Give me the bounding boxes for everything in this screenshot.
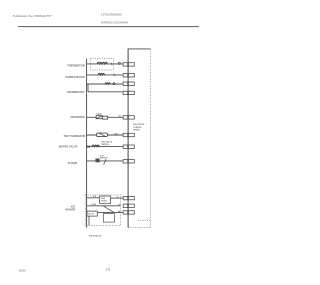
defrost heater element boxes row 5 <box>96 116 108 119</box>
wire row 5 <box>87 116 123 118</box>
svg-text:VAPORIZER: VAPORIZER <box>70 116 85 119</box>
electronic control board label <box>133 124 145 131</box>
note above wire A <box>93 195 97 198</box>
wire row 7 <box>87 146 123 148</box>
footer date <box>19 268 27 272</box>
connector pair JB <box>123 204 134 207</box>
thermal fuse squiggle row 3 <box>105 83 110 84</box>
electronic control board left edge bus <box>127 49 129 228</box>
wire A to connector <box>111 197 123 199</box>
switch throw diagonal <box>104 206 114 212</box>
wire row 6 <box>87 134 123 136</box>
svg-text:THERMISTOR: THERMISTOR <box>67 63 85 67</box>
note above row 7 <box>101 141 113 147</box>
wire row 4 <box>88 91 123 93</box>
svg-text:WIRING DIAGRAM: WIRING DIAGRAM <box>101 21 128 25</box>
svg-text:ICE MODULE: ICE MODULE <box>89 236 102 238</box>
svg-text:MAKER: MAKER <box>66 208 76 212</box>
connector pair J3 row 3 <box>123 82 134 85</box>
svg-text:ELECTRONIC: ELECTRONIC <box>133 124 145 126</box>
svg-text:M.C.B: M.C.B <box>88 214 94 216</box>
svg-text:1-6: 1-6 <box>105 268 110 272</box>
svg-text:DAMPER MOTOR: DAMPER MOTOR <box>65 76 85 79</box>
pin note 27 row A <box>116 196 118 198</box>
auger motor block (dark) <box>96 159 100 162</box>
svg-text:A NN: A NN <box>91 203 96 206</box>
header publication number <box>13 14 52 18</box>
svg-text:09/10: 09/10 <box>19 268 27 272</box>
connector pair J8 row 8 <box>123 160 134 163</box>
header rule <box>18 26 199 28</box>
connector pair J6 row 6 <box>123 133 134 136</box>
electronic control board bottom edge (dashed) <box>128 227 150 229</box>
svg-text:Publication No. 5995421757: Publication No. 5995421757 <box>13 14 52 18</box>
wire row B <box>87 205 121 207</box>
label ICE MAKER <box>66 205 76 212</box>
pin note AL row C <box>118 210 121 213</box>
svg-text:CONTROL: CONTROL <box>133 127 143 129</box>
wire row 3 <box>87 83 123 85</box>
label VAPORIZER <box>70 116 85 119</box>
label THERMOSTAT <box>67 90 86 94</box>
pin note 340 row 6 <box>114 132 118 135</box>
wire row 1 <box>87 63 123 65</box>
connector pair J1 row 1 <box>123 63 134 66</box>
water valve coil <box>92 145 100 147</box>
ice module box B2 <box>87 211 97 216</box>
thermistor RT1 dashed enclosure <box>90 58 113 70</box>
electronic control board right edge (dashed) <box>150 49 152 228</box>
ice maker dashed enclosure <box>85 195 121 226</box>
connector pair J7 row 7 <box>123 145 134 148</box>
wire tick row 2 <box>114 74 116 77</box>
header model number <box>101 12 122 16</box>
svg-text:WATER VALVE: WATER VALVE <box>59 145 78 149</box>
svg-text:27: 27 <box>116 196 118 198</box>
note above row 8 <box>100 154 108 159</box>
svg-text:AUGER: AUGER <box>67 161 77 165</box>
wire row A <box>87 197 100 199</box>
wire tick row 1 <box>111 63 112 66</box>
pin note 30 row 5 <box>118 115 121 117</box>
header title WIRING DIAGRAM <box>101 21 128 25</box>
splice X row 7 <box>88 146 90 148</box>
connector pair J4 row 4 <box>123 91 134 94</box>
thermistor RT1 coil <box>97 62 107 64</box>
electronic control board U1 top edge <box>128 48 151 50</box>
wire return loop <box>103 214 114 223</box>
label WATER VALVE <box>59 145 78 149</box>
connector pair JA <box>123 196 134 199</box>
defrost heater tiny note row 5 <box>96 114 102 116</box>
caption ICE MODULE <box>89 236 102 238</box>
wire junction rows 3-4 <box>87 84 89 92</box>
wire row C <box>97 211 123 213</box>
connector pair J5 row 5 <box>123 116 134 119</box>
splice node row 1 <box>118 62 120 64</box>
footer page number <box>105 268 110 272</box>
label AUGER <box>67 161 77 165</box>
defrost thermostat capsule row 6 <box>97 133 108 137</box>
connector pair J2 row 2 <box>123 74 134 77</box>
ice module box B1 <box>100 196 111 203</box>
splice node row 3 <box>113 83 115 85</box>
label DAMPER MOTOR <box>65 76 85 79</box>
wire row 2 <box>87 74 123 76</box>
note above wire B <box>91 203 96 206</box>
wire harness left bus <box>86 59 88 228</box>
svg-text:LFSS2466LW0: LFSS2466LW0 <box>101 12 122 16</box>
svg-text:BOARD: BOARD <box>133 129 140 132</box>
svg-text:THERMOSTAT: THERMOSTAT <box>67 90 86 94</box>
stub from module B2 <box>88 216 90 225</box>
svg-text:SWITCH: SWITCH <box>100 158 108 160</box>
damper motor coil <box>98 73 105 75</box>
label TEST THERMOSTAT <box>63 135 86 138</box>
switch arrow row 8 <box>104 159 106 164</box>
pin note 3R row B <box>118 205 121 207</box>
svg-text:TSTAT: TSTAT <box>101 200 108 203</box>
svg-text:TEST THERMOSTAT: TEST THERMOSTAT <box>63 135 86 138</box>
connector pair JC <box>123 211 134 214</box>
board inner dashed stub <box>138 219 151 221</box>
wire row 8 <box>87 160 123 162</box>
label THERMISTOR <box>67 63 85 67</box>
